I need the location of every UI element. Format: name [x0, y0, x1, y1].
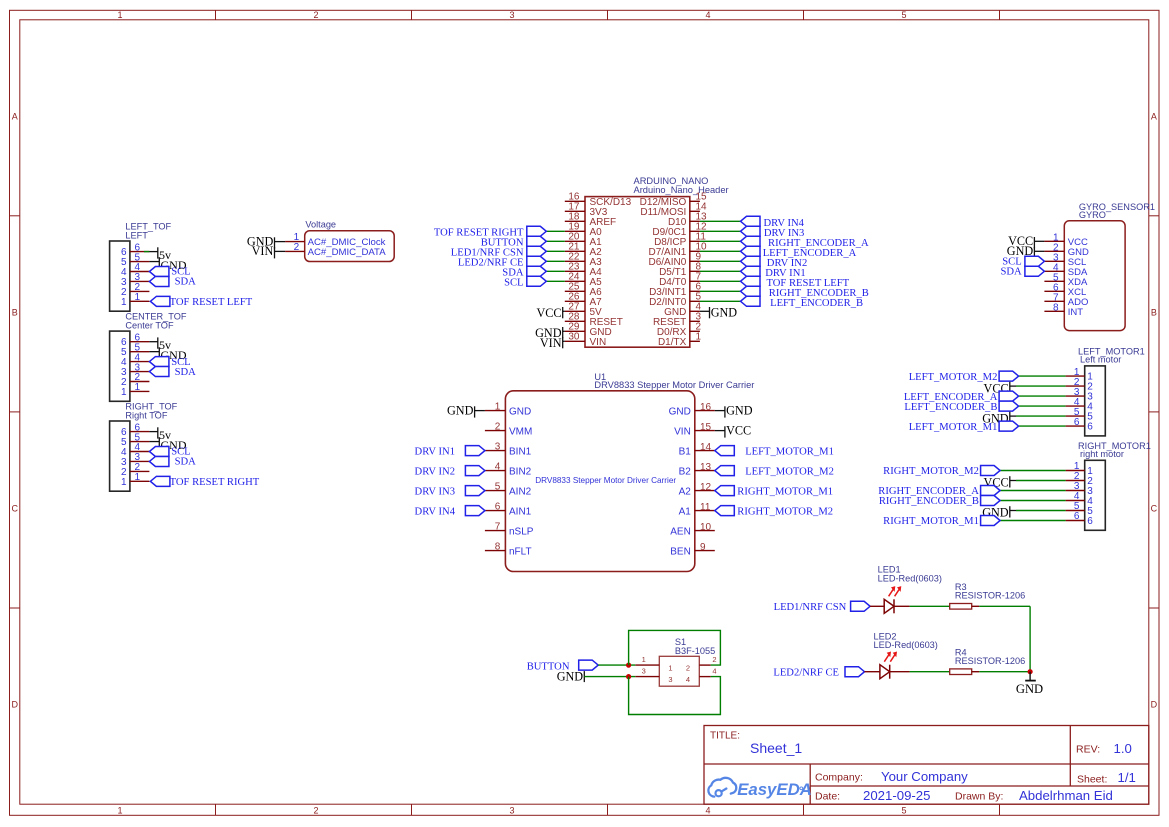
GYRO pin 1 (VCC) — [1044, 232, 1088, 248]
svg-text:RIGHT_MOTOR_M1: RIGHT_MOTOR_M1 — [737, 486, 833, 497]
wire RIGHT_ENCODER_A to RIGHT_MOTOR1 pin 3 — [1000, 490, 1066, 492]
net flag SCL (gyro) — [1002, 256, 1044, 267]
U1 pin 9 (BEN) — [670, 542, 715, 557]
svg-text:B2: B2 — [679, 466, 692, 477]
connector RIGHT_MOTOR1 body — [1085, 460, 1106, 530]
resistor R3 designator label — [955, 582, 1025, 601]
svg-text:B: B — [12, 307, 18, 317]
wire GND to gyro pin2 — [1034, 250, 1044, 252]
ARDUINO_NANO pin 6 (D3/INT1) — [649, 282, 701, 298]
net flag DRV IN1 — [415, 446, 485, 458]
wire to resistor R4 — [910, 671, 950, 673]
U1 pin 15 (VIN) — [674, 422, 715, 437]
svg-text:6: 6 — [495, 501, 501, 512]
svg-text:TITLE:: TITLE: — [710, 731, 740, 742]
netlabel VCC (LEFT_MOTOR1) — [984, 381, 1010, 395]
RIGHT_MOTOR1 pin 1 — [1066, 461, 1094, 477]
component ARDUINO_NANO designator label — [634, 176, 729, 195]
svg-text:2: 2 — [294, 242, 300, 253]
svg-text:SCL: SCL — [504, 278, 523, 289]
sensor GYRO_SENSOR1 body — [1064, 221, 1125, 331]
LEFT_TOF pin 5 — [121, 252, 149, 268]
svg-text:AIN2: AIN2 — [509, 486, 532, 497]
wire GND to U1 pin1 — [475, 410, 485, 412]
svg-text:3: 3 — [642, 667, 646, 676]
net flag LED1/NRF CSN — [774, 601, 871, 613]
U1 pin 14 (B1) — [679, 442, 715, 457]
sensor GYRO_SENSOR1 designator label — [1079, 202, 1155, 220]
resistor R4 right stub — [972, 671, 980, 673]
component Voltage body — [305, 231, 395, 262]
wire U1 pin15 to VCC — [715, 430, 725, 432]
ARDUINO_NANO pin 19 (A0) — [565, 222, 602, 238]
LEFT_MOTOR1 pin 4 — [1066, 397, 1094, 413]
net flag RIGHT_MOTOR_M2 — [715, 506, 833, 518]
net flag SCL — [149, 357, 190, 368]
ARDUINO_NANO pin 4 (GND) — [664, 302, 701, 318]
svg-text:AEN: AEN — [670, 526, 691, 537]
net flag TOF RESET LEFT — [150, 296, 252, 307]
svg-text:DRV IN3: DRV IN3 — [415, 486, 455, 497]
svg-text:3: 3 — [509, 10, 514, 20]
connector LEFT_TOF designator label — [125, 221, 171, 240]
svg-text:GYRO: GYRO — [1079, 210, 1106, 220]
svg-text:LED1/NRF CSN: LED1/NRF CSN — [774, 602, 847, 613]
connector CENTER_TOF designator label — [125, 312, 186, 331]
svg-text:A2: A2 — [679, 486, 692, 497]
ground symbol GND — [1016, 672, 1043, 696]
RIGHT_TOF pin 4 — [121, 442, 149, 458]
U1 pin 10 (AEN) — [670, 522, 715, 537]
net flag RIGHT_MOTOR_M1 — [883, 516, 1000, 528]
wire LED1 cathode — [894, 605, 910, 607]
RIGHT_TOF pin 2 — [121, 462, 149, 478]
svg-text:LEFT_MOTOR_M1: LEFT_MOTOR_M1 — [745, 446, 834, 457]
netlabel GND (U1 pin16) — [725, 404, 753, 418]
net flag TOF RESET RIGHT — [434, 226, 546, 238]
ARDUINO_NANO pin 29 (GND) — [565, 322, 612, 338]
ARDUINO_NANO pin 2 (D0/RX) — [657, 322, 702, 338]
U1 pin 3 (BIN1) — [485, 441, 532, 457]
wire arduino to DRV IN3 — [700, 230, 741, 232]
svg-text:1: 1 — [135, 292, 141, 303]
S1 pin 1 — [635, 655, 659, 665]
svg-text:AC#_DMIC_DATA: AC#_DMIC_DATA — [308, 247, 387, 258]
LEFT_TOF pin 2 — [121, 282, 149, 298]
net flag SDA — [149, 456, 196, 467]
net flag LED2/NRF CE — [458, 256, 546, 268]
LEFT_TOF pin 4 — [121, 262, 149, 278]
ARDUINO_NANO pin 9 (D6/AIN0) — [649, 252, 702, 268]
wire LED2 cathode — [890, 671, 910, 673]
net flag LEFT_ENCODER_B — [741, 296, 864, 309]
wire S1 loop pin1 to pin2 — [629, 630, 721, 665]
net flag SDA (gyro) — [1000, 266, 1044, 277]
U1 pin 5 (AIN2) — [485, 481, 532, 497]
svg-text:GND: GND — [711, 306, 738, 320]
wire LED2/NRF CE to arduino — [546, 260, 565, 262]
wire arduino to RIGHT_ENCODER_A — [700, 240, 741, 242]
svg-text:6: 6 — [1087, 516, 1093, 527]
ARDUINO_NANO pin 24 (A5) — [565, 272, 602, 288]
ruler column numbers top — [117, 10, 906, 20]
svg-text:15: 15 — [700, 422, 712, 433]
netlabel GND (arduino) — [535, 326, 563, 340]
svg-text:RIGHT_ENCODER_B: RIGHT_ENCODER_B — [879, 496, 979, 507]
connector RIGHT_TOF designator label — [125, 401, 177, 420]
net flag DRV IN2 — [415, 466, 485, 478]
wire arduino to DRV IN4 — [700, 220, 741, 222]
svg-text:LED2/NRF CE: LED2/NRF CE — [773, 668, 839, 679]
svg-text:4: 4 — [705, 10, 710, 20]
wire VCC to gyro pin1 — [1034, 240, 1044, 242]
wire pin5 to GND — [149, 441, 159, 443]
CENTER_TOF pin 3 — [121, 362, 149, 378]
svg-text:TOF RESET RIGHT: TOF RESET RIGHT — [170, 477, 260, 488]
IC U1 designator label — [594, 372, 754, 390]
op-amp U? ARDUINO_NANO body — [585, 197, 690, 348]
svg-text:DRV IN4: DRV IN4 — [415, 506, 456, 517]
RIGHT_TOF pin 1 — [121, 472, 149, 488]
U1 pin 13 (B2) — [679, 462, 715, 477]
svg-text:Left motor: Left motor — [1080, 355, 1121, 365]
svg-text:3: 3 — [495, 441, 501, 452]
svg-text:5: 5 — [901, 805, 906, 815]
svg-text:Company:: Company: — [815, 772, 863, 784]
LED LED1 symbol — [884, 599, 894, 613]
connector CENTER_TOF body — [110, 331, 130, 401]
ARDUINO_NANO pin 3 (RESET) — [653, 312, 702, 328]
wire pin5 to GND — [149, 351, 159, 353]
svg-text:16: 16 — [700, 402, 712, 413]
resistor R4 body — [950, 669, 972, 675]
net flag DRV IN2 — [741, 256, 808, 269]
svg-text:1: 1 — [495, 401, 501, 412]
junction BUTTON wire — [626, 663, 631, 668]
svg-text:DRV8833 Stepper Motor Driver C: DRV8833 Stepper Motor Driver Carrier — [594, 380, 754, 390]
svg-text:Arduino_Nano_Header: Arduino_Nano_Header — [634, 185, 729, 195]
switch S1 designator label — [675, 637, 715, 656]
switch S1 body — [659, 656, 699, 686]
svg-text:VIN: VIN — [590, 337, 607, 348]
svg-text:B: B — [1151, 307, 1157, 317]
svg-text:1: 1 — [121, 297, 127, 308]
net flag RIGHT_ENCODER_B — [741, 286, 869, 299]
connector RIGHT_MOTOR1 designator label — [1078, 441, 1151, 459]
svg-text:1.0: 1.0 — [1114, 741, 1132, 756]
svg-text:VIN: VIN — [252, 244, 274, 258]
wire LEFT_ENCODER_A to LEFT_MOTOR1 pin 3 — [1019, 395, 1066, 397]
svg-text:REV:: REV: — [1076, 743, 1100, 755]
EasyEDA logo text — [737, 780, 812, 799]
ARDUINO_NANO pin 13 (D10) — [668, 212, 707, 228]
svg-text:nFLT: nFLT — [509, 546, 532, 557]
svg-text:RIGHT_MOTOR_M2: RIGHT_MOTOR_M2 — [737, 506, 833, 517]
svg-text:A1: A1 — [679, 506, 692, 517]
svg-text:GND: GND — [669, 406, 691, 417]
svg-text:GND: GND — [726, 404, 753, 418]
svg-text:LEFT_MOTOR_M2: LEFT_MOTOR_M2 — [745, 466, 834, 477]
wire VCC to arduino 5V — [563, 310, 565, 312]
wire GND to LEFT_MOTOR1 pin 5 — [1010, 415, 1066, 417]
wire pin6 to 5v — [144, 251, 158, 253]
svg-text:11: 11 — [700, 502, 711, 513]
net flag LEFT_MOTOR_M2 — [715, 466, 834, 478]
U1 pin 1 (GND) — [485, 401, 531, 417]
netlabel GND (arduino pin4) — [710, 306, 738, 320]
svg-text:LEFT: LEFT — [125, 231, 148, 241]
net flag DRV IN3 — [415, 486, 485, 498]
wire LED1/NRF CSN to arduino — [546, 250, 565, 252]
CENTER_TOF pin 4 — [121, 352, 149, 368]
svg-text:5: 5 — [901, 10, 906, 20]
RIGHT_MOTOR1 pin 2 — [1066, 471, 1094, 487]
LEFT_TOF pin 3 — [121, 272, 149, 288]
LED LED2 symbol — [880, 665, 890, 679]
U1 pin 16 (GND) — [669, 402, 715, 417]
net flag RIGHT_MOTOR_M1 — [715, 486, 833, 498]
svg-text:13: 13 — [700, 462, 712, 473]
netlabel VCC (RIGHT_MOTOR1) — [984, 476, 1010, 490]
svg-text:RIGHT_MOTOR_M2: RIGHT_MOTOR_M2 — [883, 466, 979, 477]
ARDUINO_NANO pin 16 (SCK/D13) — [565, 192, 632, 208]
ARDUINO_NANO pin 8 (D5/T1) — [659, 262, 701, 278]
S1 pin 4 — [699, 667, 716, 677]
U1 pin 7 (nSLP) — [485, 521, 534, 537]
junction LED GND net — [1028, 669, 1033, 674]
svg-text:1: 1 — [668, 663, 672, 672]
svg-text:BIN2: BIN2 — [509, 466, 532, 477]
U1 pin 2 (VMM) — [485, 421, 532, 437]
svg-text:1: 1 — [121, 477, 127, 488]
net flag DRV IN4 — [415, 506, 485, 518]
svg-text:SDA: SDA — [175, 457, 197, 468]
net flag RIGHT_ENCODER_B — [879, 496, 1000, 508]
GYRO pin 2 (GND) — [1044, 242, 1089, 258]
RIGHT_MOTOR1 pin 4 — [1066, 491, 1094, 507]
EasyEDA logo cloud — [708, 778, 736, 797]
svg-text:C: C — [11, 504, 18, 514]
svg-text:VIN: VIN — [674, 426, 691, 437]
wire GND net vertical — [1029, 606, 1031, 671]
wire arduino GND pin4 — [700, 310, 710, 312]
LEFT_MOTOR1 pin 3 — [1066, 387, 1094, 403]
connector LEFT_MOTOR1 designator label — [1078, 346, 1145, 364]
U1 pin 11 (A1) — [679, 502, 715, 517]
svg-text:DRV IN2: DRV IN2 — [415, 466, 455, 477]
svg-text:1: 1 — [117, 805, 122, 815]
svg-text:nSLP: nSLP — [509, 526, 534, 537]
svg-text:LED-Red(0603): LED-Red(0603) — [878, 574, 942, 584]
svg-text:12: 12 — [700, 482, 712, 493]
svg-text:SDA: SDA — [175, 277, 197, 288]
svg-text:8: 8 — [1053, 302, 1059, 313]
wire arduino to TOF RESET LEFT — [700, 280, 741, 282]
LED LED1 light arrows — [889, 586, 902, 596]
Voltage pin 1 (AC#_DMIC_Clock) — [285, 232, 305, 243]
connector LEFT_MOTOR1 body — [1085, 366, 1106, 436]
ARDUINO_NANO pin 10 (D7/AIN1) — [649, 242, 708, 258]
ruler row letters left — [11, 111, 18, 709]
svg-text:VCC: VCC — [536, 306, 561, 320]
svg-text:B1: B1 — [679, 446, 692, 457]
net flag LED2/NRF CE — [773, 667, 864, 679]
net flag TOF RESET RIGHT — [150, 476, 259, 487]
svg-text:Center TOF: Center TOF — [125, 321, 174, 331]
netlabel GND (S1) — [557, 669, 585, 683]
ARDUINO_NANO pin 23 (A4) — [565, 262, 602, 278]
netlabel GND (RIGHT_MOTOR1) — [982, 506, 1010, 520]
wire RIGHT_MOTOR_M1 to RIGHT_MOTOR1 pin 6 — [1000, 520, 1066, 522]
netlabel GND (LEFT_MOTOR1) — [982, 411, 1010, 425]
svg-text:RESISTOR-1206: RESISTOR-1206 — [955, 656, 1025, 666]
net flag RIGHT_ENCODER_A — [741, 236, 869, 249]
svg-text:AIN1: AIN1 — [509, 506, 532, 517]
title block outline — [704, 726, 1149, 805]
svg-text:2: 2 — [495, 421, 501, 432]
netlabel VIN (arduino) — [540, 336, 563, 350]
svg-text:INT: INT — [1068, 307, 1084, 318]
LEFT_MOTOR1 pin 5 — [1066, 407, 1094, 423]
svg-text:BEN: BEN — [670, 546, 691, 557]
netlabel GND (U1 pin1) — [447, 404, 475, 418]
svg-text:4: 4 — [705, 805, 710, 815]
wire LEFT_MOTOR_M1 to LEFT_MOTOR1 pin 6 — [1019, 425, 1066, 427]
netlabel VCC (gyro) — [1008, 234, 1034, 248]
svg-text:BIN1: BIN1 — [509, 446, 532, 457]
wire VCC to RIGHT_MOTOR1 pin 2 — [1010, 480, 1066, 482]
svg-text:Voltage: Voltage — [305, 219, 336, 229]
svg-text:SDA: SDA — [1000, 267, 1022, 278]
RIGHT_TOF pin 6 — [121, 422, 149, 438]
LED LED1 designator label — [878, 565, 942, 584]
wire GND to Voltage pin1 — [275, 241, 286, 243]
svg-text:Date:: Date: — [815, 791, 840, 803]
svg-text:6: 6 — [1074, 511, 1080, 522]
ruler column numbers bottom — [117, 805, 906, 815]
ARDUINO_NANO pin 28 (RESET) — [565, 312, 623, 328]
resistor R3 right stub — [972, 605, 980, 607]
svg-text:10: 10 — [700, 522, 712, 533]
svg-text:Right TOF: Right TOF — [125, 411, 167, 421]
wire R4 to GND net — [979, 671, 1030, 673]
net flag DRV IN4 — [741, 216, 805, 229]
net flag SDA — [149, 276, 196, 287]
LEFT_MOTOR1 pin 1 — [1066, 367, 1094, 383]
RIGHT_MOTOR1 pin 3 — [1066, 481, 1094, 497]
wire LEFT_ENCODER_B to LEFT_MOTOR1 pin 4 — [1019, 405, 1066, 407]
LEFT_TOF pin 6 — [121, 242, 149, 258]
wire LEFT_MOTOR_M2 to LEFT_MOTOR1 pin 1 — [1019, 375, 1066, 377]
wire GND to RIGHT_MOTOR1 pin 5 — [1010, 510, 1066, 512]
U1 pin 4 (BIN2) — [485, 461, 532, 477]
svg-text:Drawn By:: Drawn By: — [955, 791, 1003, 803]
net flag RIGHT_MOTOR_M2 — [883, 466, 1000, 478]
GYRO pin 3 (SCL) — [1044, 252, 1086, 268]
netlabel VCC (arduino 5V) — [536, 306, 562, 320]
svg-text:1/1: 1/1 — [1118, 770, 1136, 785]
connector RIGHT_TOF body — [110, 421, 130, 491]
svg-text:RESISTOR-1206: RESISTOR-1206 — [955, 591, 1025, 601]
RIGHT_TOF pin 5 — [121, 432, 149, 448]
svg-text:30: 30 — [568, 332, 580, 343]
wire SCL to arduino — [546, 280, 565, 282]
svg-text:TOF RESET LEFT: TOF RESET LEFT — [170, 297, 253, 308]
ARDUINO_NANO pin 1 (D1/TX) — [658, 332, 702, 348]
wire VIN to arduino VIN — [563, 340, 565, 342]
wire to resistor R3 — [910, 605, 950, 607]
ruler ticks left and right — [10, 216, 1160, 608]
svg-text:6: 6 — [1074, 417, 1080, 428]
wire BUTTON to S1 pin1 — [598, 664, 635, 666]
svg-text:D1/TX: D1/TX — [658, 337, 687, 348]
ARDUINO_NANO pin 20 (A1) — [565, 232, 602, 248]
wire pin6 to 5v — [149, 431, 157, 433]
svg-text:2: 2 — [712, 655, 716, 664]
LEFT_MOTOR1 pin 6 — [1066, 417, 1094, 433]
wire VCC to LEFT_MOTOR1 pin 2 — [1010, 385, 1066, 387]
LEFT_TOF pin 1 — [121, 292, 149, 308]
svg-text:1: 1 — [121, 387, 127, 398]
LED LED2 designator label — [874, 631, 938, 650]
net flag SCL — [149, 267, 190, 278]
svg-text:1: 1 — [642, 655, 646, 664]
ARDUINO_NANO pin 30 (VIN) — [565, 332, 606, 348]
net flag LEFT_MOTOR_M1 — [909, 421, 1019, 433]
svg-text:GND: GND — [447, 404, 474, 418]
ARDUINO_NANO pin 26 (A7) — [565, 292, 602, 308]
wire R3 to GND net — [979, 605, 1030, 607]
ARDUINO_NANO pin 18 (AREF) — [565, 212, 616, 228]
wire VIN to Voltage pin2 — [275, 250, 286, 252]
Voltage pin names — [308, 237, 387, 258]
wire pin6 to 5v — [149, 341, 157, 343]
wire SDA to arduino — [546, 270, 565, 272]
ARDUINO_NANO pin 25 (A6) — [565, 282, 602, 298]
svg-text:1: 1 — [135, 382, 141, 393]
svg-text:D: D — [11, 700, 18, 710]
svg-text:B3F-1055: B3F-1055 — [675, 646, 715, 656]
svg-text:right motor: right motor — [1080, 449, 1124, 459]
wire pin5 to GND — [149, 261, 159, 263]
ARDUINO_NANO pin 21 (A2) — [565, 242, 602, 258]
IC U1 DRV8833 body — [505, 391, 694, 572]
wire arduino to RIGHT_ENCODER_B — [700, 290, 741, 292]
ARDUINO_NANO pin 27 (5V) — [565, 302, 602, 318]
S1 pin 2 — [699, 655, 716, 665]
U1 pin 8 (nFLT) — [485, 541, 532, 557]
ARDUINO_NANO pin 22 (A3) — [565, 252, 602, 268]
svg-text:4: 4 — [495, 461, 501, 472]
svg-text:GND: GND — [557, 669, 584, 683]
wire BUTTON to arduino — [546, 240, 565, 242]
ARDUINO_NANO pin 5 (D2/INT0) — [649, 292, 701, 308]
GYRO pin 7 (ADO) — [1044, 292, 1088, 308]
svg-text:6: 6 — [1087, 422, 1093, 433]
wire TOF RESET RIGHT to arduino — [546, 230, 565, 232]
CENTER_TOF pin 2 — [121, 372, 149, 388]
netlabel VCC (U1 pin15) — [725, 424, 751, 438]
svg-text:2021-09-25: 2021-09-25 — [863, 788, 930, 803]
svg-text:A: A — [12, 111, 18, 121]
wire RIGHT_ENCODER_B to RIGHT_MOTOR1 pin 4 — [1000, 500, 1066, 502]
svg-text:VMM: VMM — [509, 426, 532, 437]
svg-text:14: 14 — [700, 442, 712, 453]
resistor R4 designator label — [955, 648, 1025, 667]
svg-text:C: C — [1151, 504, 1158, 514]
netlabel 5v — [158, 247, 171, 262]
netlabel GND — [159, 257, 187, 272]
